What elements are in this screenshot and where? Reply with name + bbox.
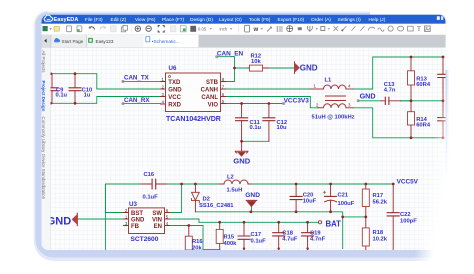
svg-text:EN: EN — [154, 224, 162, 230]
svg-text:U6: U6 — [169, 65, 177, 72]
svg-text:0.1uF: 0.1uF — [251, 238, 267, 244]
svg-text:0.1u: 0.1u — [250, 125, 262, 131]
svg-text:•Schematic...: •Schematic... — [152, 39, 180, 45]
svg-text:10k: 10k — [251, 59, 261, 65]
svg-text:Help (J): Help (J) — [369, 17, 386, 23]
svg-text:Easy123: Easy123 — [96, 39, 114, 44]
svg-text:TCAN1042HVDR: TCAN1042HVDR — [166, 116, 221, 123]
svg-text:Design (D): Design (D) — [190, 17, 213, 23]
svg-text:VIN: VIN — [152, 218, 162, 224]
svg-text:R15: R15 — [224, 234, 235, 240]
svg-text:VIO: VIO — [208, 102, 219, 108]
svg-text:GND: GND — [131, 218, 145, 224]
svg-text:L2: L2 — [227, 175, 234, 181]
svg-text:RXD: RXD — [168, 102, 181, 108]
svg-text:EasyEDA: EasyEDA — [54, 17, 79, 23]
svg-text:0.1uF: 0.1uF — [143, 195, 159, 201]
svg-text:GND: GND — [168, 88, 182, 94]
svg-text:SW: SW — [152, 211, 162, 217]
svg-text:L1: L1 — [325, 77, 333, 83]
svg-text:BST: BST — [131, 211, 143, 217]
svg-text:Layout (O): Layout (O) — [219, 17, 242, 23]
svg-text:Tools (F9): Tools (F9) — [249, 17, 271, 23]
svg-text:C17: C17 — [251, 232, 262, 238]
svg-text:1u: 1u — [84, 93, 91, 99]
svg-text:R16: R16 — [192, 239, 203, 245]
svg-text:GND: GND — [233, 156, 250, 165]
svg-text:View (F6): View (F6) — [135, 17, 156, 23]
svg-text:CANH: CANH — [201, 88, 218, 94]
svg-text:Order (A): Order (A) — [311, 17, 331, 23]
svg-text:inch: inch — [220, 26, 228, 31]
svg-text:Settings (I): Settings (I) — [338, 17, 362, 23]
svg-text:4.7nF: 4.7nF — [310, 236, 326, 242]
svg-text:GND: GND — [360, 92, 376, 101]
svg-text:0.1u: 0.1u — [56, 93, 68, 99]
svg-text:CAN_EN: CAN_EN — [217, 51, 244, 58]
svg-text:BAT: BAT — [326, 220, 342, 229]
svg-text:FB: FB — [131, 224, 140, 230]
svg-text:D2: D2 — [203, 196, 210, 202]
svg-text:51uH @ 100kHz: 51uH @ 100kHz — [312, 114, 355, 120]
svg-text:Project Design: Project Design — [41, 81, 46, 112]
svg-text:C16: C16 — [144, 172, 155, 178]
svg-text:Edit (Z): Edit (Z) — [111, 17, 127, 23]
svg-text:10.2k: 10.2k — [373, 236, 388, 242]
svg-text:0.05: 0.05 — [198, 26, 207, 31]
svg-text:4.7n: 4.7n — [384, 88, 396, 94]
svg-text:Export (F10): Export (F10) — [278, 17, 305, 23]
svg-text:Device Standardization: Device Standardization — [41, 154, 46, 200]
svg-text:4.7uF: 4.7uF — [282, 236, 298, 242]
svg-text:10uF: 10uF — [303, 198, 317, 204]
svg-text:GND: GND — [300, 64, 318, 73]
svg-text:w: w — [253, 27, 259, 33]
svg-text:400k: 400k — [224, 241, 238, 247]
svg-text:100uF: 100uF — [338, 201, 355, 207]
svg-text:R17: R17 — [373, 193, 384, 199]
svg-text:VCC: VCC — [168, 95, 181, 101]
svg-text:TXD: TXD — [168, 80, 181, 86]
svg-text:GND: GND — [245, 192, 260, 199]
svg-text:C21: C21 — [338, 192, 349, 198]
svg-text:56.2k: 56.2k — [373, 199, 388, 205]
svg-text:10u: 10u — [277, 125, 287, 131]
svg-text:C20: C20 — [303, 192, 314, 198]
svg-text:File (F3): File (F3) — [85, 17, 103, 23]
svg-text:Place (F7): Place (F7) — [162, 17, 185, 23]
svg-text:All Projects: All Projects — [41, 51, 46, 74]
svg-text:STB: STB — [206, 80, 219, 86]
svg-text:Commonly Library: Commonly Library — [41, 117, 46, 154]
svg-text:SS16_C2481: SS16_C2481 — [199, 203, 234, 209]
svg-text:CAN_TX: CAN_TX — [124, 75, 150, 82]
svg-text:CAN_RX: CAN_RX — [124, 97, 150, 104]
svg-text:1.5uH: 1.5uH — [227, 187, 243, 193]
svg-text:Start Page: Start Page — [62, 39, 84, 44]
svg-text:CANL: CANL — [201, 95, 218, 101]
svg-text:VCC3V3: VCC3V3 — [284, 97, 310, 104]
svg-text:U3: U3 — [129, 201, 137, 208]
svg-text:SCT2600: SCT2600 — [131, 236, 159, 243]
svg-text:R18: R18 — [373, 230, 384, 236]
